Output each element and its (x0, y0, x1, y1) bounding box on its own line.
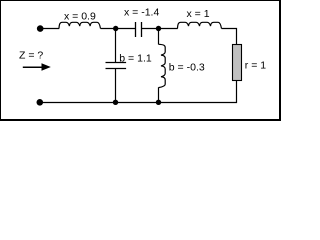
wire top rail: L1 to series capacitor C1 (101, 28, 136, 30)
svg-text:b = -0.3: b = -0.3 (169, 61, 205, 73)
capacitor C1 x = -1.4 (series, vertical plates) (136, 22, 142, 37)
wire: shunt inductor bottom stub to bottom rail (158, 87, 160, 102)
wire top rail: C1 to L2 (142, 28, 178, 30)
capacitor C2 b = 1.1 (shunt, horizontal plates) (106, 63, 127, 69)
wire: shunt inductor top stub from J2 (158, 29, 160, 45)
terminal node (top-left port) (37, 25, 44, 32)
wire: resistor bottom to bottom rail corner (40, 81, 237, 103)
svg-text:x = 1: x = 1 (187, 8, 210, 20)
wire: shunt capacitor top stub from J1 (115, 29, 117, 63)
svg-text:r = 1: r = 1 (245, 60, 266, 72)
node J4 (shunt inductor joins bottom rail) (156, 100, 161, 105)
node J1 (junction of L1, C1, shunt capacitor) (113, 26, 118, 31)
svg-text:b = 1.1: b = 1.1 (119, 53, 152, 65)
node J2 (junction of C1, L2, shunt inductor) (156, 26, 161, 31)
inductor L1 x = 0.9 (series, top rail) (59, 22, 101, 28)
arrow (looking-in direction) (23, 63, 51, 71)
inductor L3 b = -0.3 (shunt, vertical coil) (159, 44, 166, 87)
svg-text:Z = ?: Z = ? (19, 49, 43, 61)
resistor R1 r = 1 (load) (233, 45, 242, 81)
wire top rail: left terminal to L1 (42, 28, 59, 30)
wire: L2 to top-right corner and down to resistor (222, 29, 237, 45)
wire: shunt capacitor bottom stub to bottom rail (115, 69, 117, 103)
border frame (0, 0, 281, 121)
inductor L2 x = 1 (series, top rail) (178, 22, 222, 28)
svg-text:x = 0.9: x = 0.9 (64, 10, 96, 22)
node J3 (shunt capacitor joins bottom rail) (113, 100, 118, 105)
terminal node (bottom-left port) (37, 99, 44, 106)
svg-text:x = -1.4: x = -1.4 (124, 7, 159, 19)
